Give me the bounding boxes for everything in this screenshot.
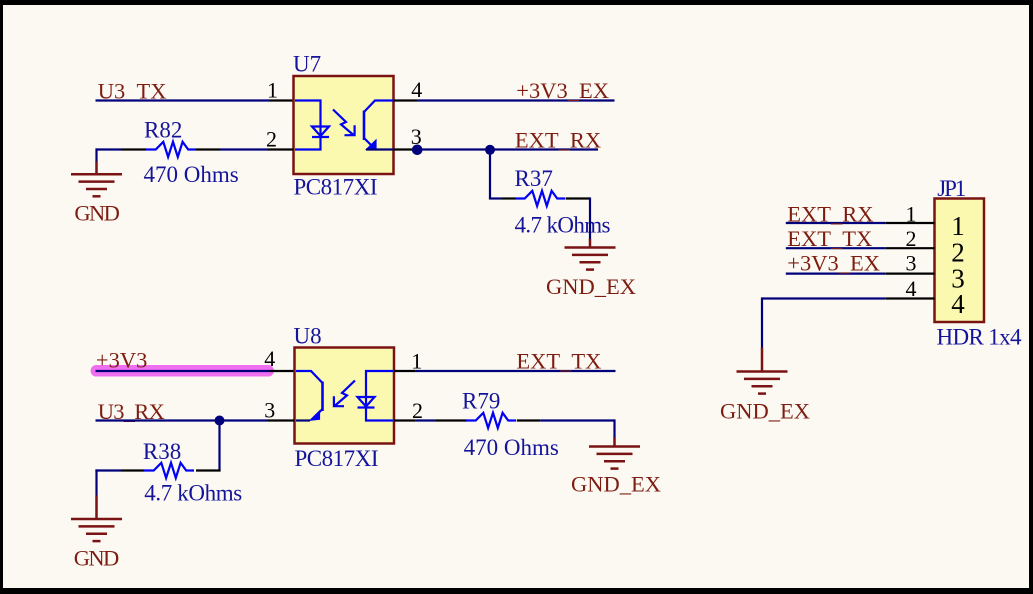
svg-text:4: 4	[951, 289, 965, 319]
svg-text:R82: R82	[144, 118, 182, 143]
svg-text:U7: U7	[293, 52, 321, 77]
svg-text:4.7 kOhms: 4.7 kOhms	[144, 481, 242, 506]
op-to box U7 body	[294, 76, 394, 174]
svg-text:1: 1	[411, 349, 422, 374]
wire R79 to GND_EX corner	[540, 419, 614, 421]
pin 2 of U8	[394, 419, 416, 421]
svg-text:GND_EX: GND_EX	[546, 274, 636, 299]
pin 3 of JP1	[886, 273, 935, 275]
pin 4 of U8	[270, 370, 295, 372]
svg-text:3: 3	[906, 251, 917, 276]
resistor R82	[121, 148, 146, 150]
svg-text:R79: R79	[462, 388, 500, 413]
svg-text:1: 1	[267, 77, 278, 102]
connector JP1 body	[935, 199, 985, 323]
LED of U7	[295, 101, 329, 150]
wire R37 down to GND_EX	[589, 197, 591, 240]
resistor R38	[144, 463, 194, 478]
pin 4 of JP1	[886, 297, 935, 299]
ground GND_EX (under R37)	[565, 239, 616, 270]
pin 2 of JP1	[886, 247, 935, 249]
wire down to GND (bottom)	[95, 469, 97, 496]
LED of U8	[358, 371, 394, 421]
svg-text:4: 4	[411, 77, 422, 102]
pin 4 of U7	[394, 99, 418, 101]
wire pin2 to R79	[416, 419, 436, 421]
svg-text:470 Ohms: 470 Ohms	[464, 435, 559, 460]
svg-text:1: 1	[951, 211, 965, 241]
light arrow of U7	[333, 110, 355, 136]
light arrow of U8	[334, 381, 355, 407]
pin 2 of U7	[268, 148, 294, 150]
ground GND_EX (under JP1)	[737, 348, 788, 394]
svg-text:3: 3	[264, 397, 275, 422]
wire down to GND_EX	[613, 419, 615, 438]
wire down to GND	[95, 148, 97, 162]
wire EXT_RX to pin1	[786, 222, 886, 224]
wire corner to R37	[489, 197, 502, 199]
pin 3 of U7	[394, 148, 418, 150]
svg-text:4.7 kOhms: 4.7 kOhms	[515, 213, 611, 238]
resistor R37	[502, 197, 516, 199]
junction dot	[412, 145, 423, 156]
svg-text:JP1: JP1	[937, 176, 966, 201]
opto box U8 body	[295, 348, 395, 444]
junction dot	[485, 145, 495, 155]
svg-text:R38: R38	[143, 439, 181, 464]
svg-text:470 Ohms: 470 Ohms	[144, 162, 239, 187]
emitter wire inside U7	[366, 148, 394, 150]
wire U3_TX to pin1	[96, 99, 271, 101]
ground GND (top left)	[71, 162, 122, 197]
svg-text:GND: GND	[74, 546, 120, 571]
wire U3_RX to pin3	[96, 419, 269, 421]
svg-text:R37: R37	[515, 166, 553, 191]
wire R82 to pin2	[220, 148, 268, 150]
phototransistor of U7	[364, 101, 393, 151]
wire EXT_TX to pin2	[786, 247, 886, 249]
wire +3V3_EX to pin3	[786, 273, 886, 275]
svg-text:4: 4	[906, 276, 917, 301]
wire R38 right segment	[196, 469, 221, 471]
svg-text:+3V3_EX: +3V3_EX	[516, 78, 609, 103]
svg-text:1: 1	[906, 202, 917, 227]
ground GND_EX (under R79)	[589, 438, 640, 469]
svg-text:4: 4	[264, 346, 275, 371]
ground GND (bottom left)	[71, 496, 122, 542]
svg-text:GND_EX: GND_EX	[720, 399, 810, 424]
svg-text:GND: GND	[74, 201, 120, 226]
junction dot	[215, 416, 225, 426]
pin 1 of U8	[394, 370, 416, 372]
svg-text:2: 2	[906, 226, 917, 251]
wire GND to R82	[96, 148, 122, 150]
highlight on +3V3 wire	[96, 365, 268, 377]
svg-text:2: 2	[412, 398, 423, 423]
emitter wire inside U8	[296, 419, 310, 421]
svg-text:EXT_RX: EXT_RX	[515, 128, 601, 153]
svg-text:+3V3_EX: +3V3_EX	[787, 251, 880, 276]
svg-text:HDR 1x4: HDR 1x4	[937, 325, 1023, 350]
phototransistor of U8	[296, 371, 323, 421]
wire pin1 to EXT_TX	[416, 370, 616, 372]
wire pin4 to GND_EX	[762, 299, 886, 349]
svg-text:PC817XI: PC817XI	[294, 175, 378, 200]
svg-text:GND_EX: GND_EX	[571, 472, 661, 497]
pin 1 of JP1	[886, 222, 935, 224]
wire +3V3 to pin4	[96, 370, 271, 372]
wire R38 to GND corner	[95, 469, 121, 471]
wire pin4 to +3V3_EX	[417, 99, 615, 101]
svg-text:U8: U8	[294, 324, 322, 349]
svg-text:EXT_RX: EXT_RX	[787, 202, 873, 227]
wire junction down to R37	[489, 150, 491, 199]
pin 1 of U7	[270, 99, 294, 101]
pin 3 of U8	[268, 419, 295, 421]
svg-text:EXT_TX: EXT_TX	[516, 349, 601, 374]
svg-text:PC817XI: PC817XI	[295, 446, 379, 471]
resistor R79	[436, 419, 467, 421]
svg-text:EXT_TX: EXT_TX	[787, 226, 872, 251]
svg-text:+3V3: +3V3	[96, 348, 147, 373]
svg-text:2: 2	[266, 127, 277, 152]
wire junction down to R38	[218, 421, 220, 471]
wire pin3 to EXT_RX	[417, 148, 598, 150]
